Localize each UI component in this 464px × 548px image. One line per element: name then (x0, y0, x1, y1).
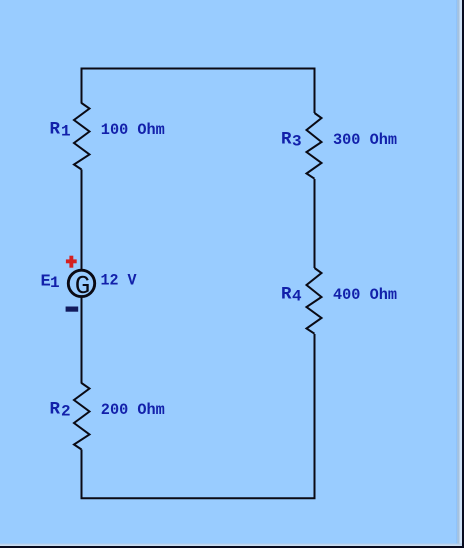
resistor R2 (74, 383, 90, 450)
wire right vertical lower (314, 334, 316, 499)
svg-text:1: 1 (61, 123, 71, 141)
wire left vertical upper (81, 68, 83, 104)
label E1 (41, 272, 60, 292)
value 300 Ohm (333, 131, 397, 149)
value 100 Ohm (101, 121, 165, 139)
wire left vertical lower (81, 450, 83, 500)
svg-text:G: G (75, 271, 91, 301)
svg-text:4: 4 (292, 288, 302, 306)
svg-text:400 Ohm: 400 Ohm (333, 286, 397, 304)
wire left vertical E1 to R2 (81, 297, 83, 384)
svg-text:2: 2 (61, 403, 71, 421)
value 12 V (101, 272, 137, 290)
label R4 (281, 285, 302, 306)
polarity minus of E1 (66, 307, 79, 312)
svg-text:300 Ohm: 300 Ohm (333, 131, 397, 149)
svg-text:100 Ohm: 100 Ohm (101, 121, 165, 139)
resistor R1 (74, 103, 90, 170)
window edge right highlight (456, 0, 457, 548)
source E1 generator circle (68, 270, 94, 301)
label R2 (50, 400, 71, 421)
window edge bottom dark (0, 546, 464, 548)
resistor R3 (307, 113, 322, 179)
svg-text:1: 1 (50, 274, 60, 292)
wire left vertical R1 to E1 (81, 170, 83, 271)
window edge right dark (462, 0, 464, 548)
label R1 (50, 120, 71, 141)
svg-text:200 Ohm: 200 Ohm (101, 401, 165, 419)
wire top horizontal (81, 68, 316, 70)
svg-text:R: R (50, 400, 61, 420)
polarity plus of E1 (66, 256, 77, 268)
svg-text:R: R (281, 130, 292, 150)
value 200 Ohm (101, 401, 165, 419)
svg-text:12 V: 12 V (101, 272, 137, 290)
wire right vertical R3 to R4 (314, 179, 316, 268)
resistor R4 (307, 268, 322, 334)
value 400 Ohm (333, 286, 397, 304)
svg-text:R: R (50, 120, 61, 140)
svg-text:3: 3 (292, 133, 302, 151)
wire bottom horizontal (81, 497, 316, 499)
svg-text:R: R (281, 285, 292, 305)
window edge bottom highlight (0, 544, 462, 545)
wire right vertical upper (314, 68, 316, 114)
label R3 (281, 130, 302, 151)
